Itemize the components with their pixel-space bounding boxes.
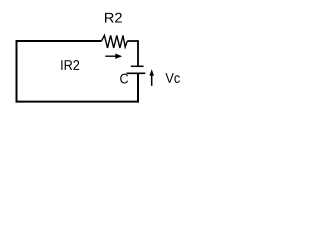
wire: bottom side xyxy=(16,101,140,103)
voltage arrow Vc (points up) xyxy=(151,73,153,86)
label Vc xyxy=(165,73,180,83)
label C xyxy=(120,74,128,84)
wire: from capacitor C bottom plate down to bottom side xyxy=(137,74,139,102)
wire: top side, left of resistor R2 xyxy=(16,40,102,42)
capacitor C bottom plate xyxy=(127,72,146,74)
current arrow IR2 (points right) xyxy=(105,55,116,57)
RC circuit schematic xyxy=(0,0,198,119)
capacitor C top plate xyxy=(131,65,144,67)
resistor R2 xyxy=(101,35,127,48)
wire: from resistor R2 to capacitor C top plate xyxy=(127,41,138,66)
wire: left side xyxy=(16,40,18,103)
label R2 xyxy=(105,13,122,23)
label IR2 xyxy=(61,60,79,70)
